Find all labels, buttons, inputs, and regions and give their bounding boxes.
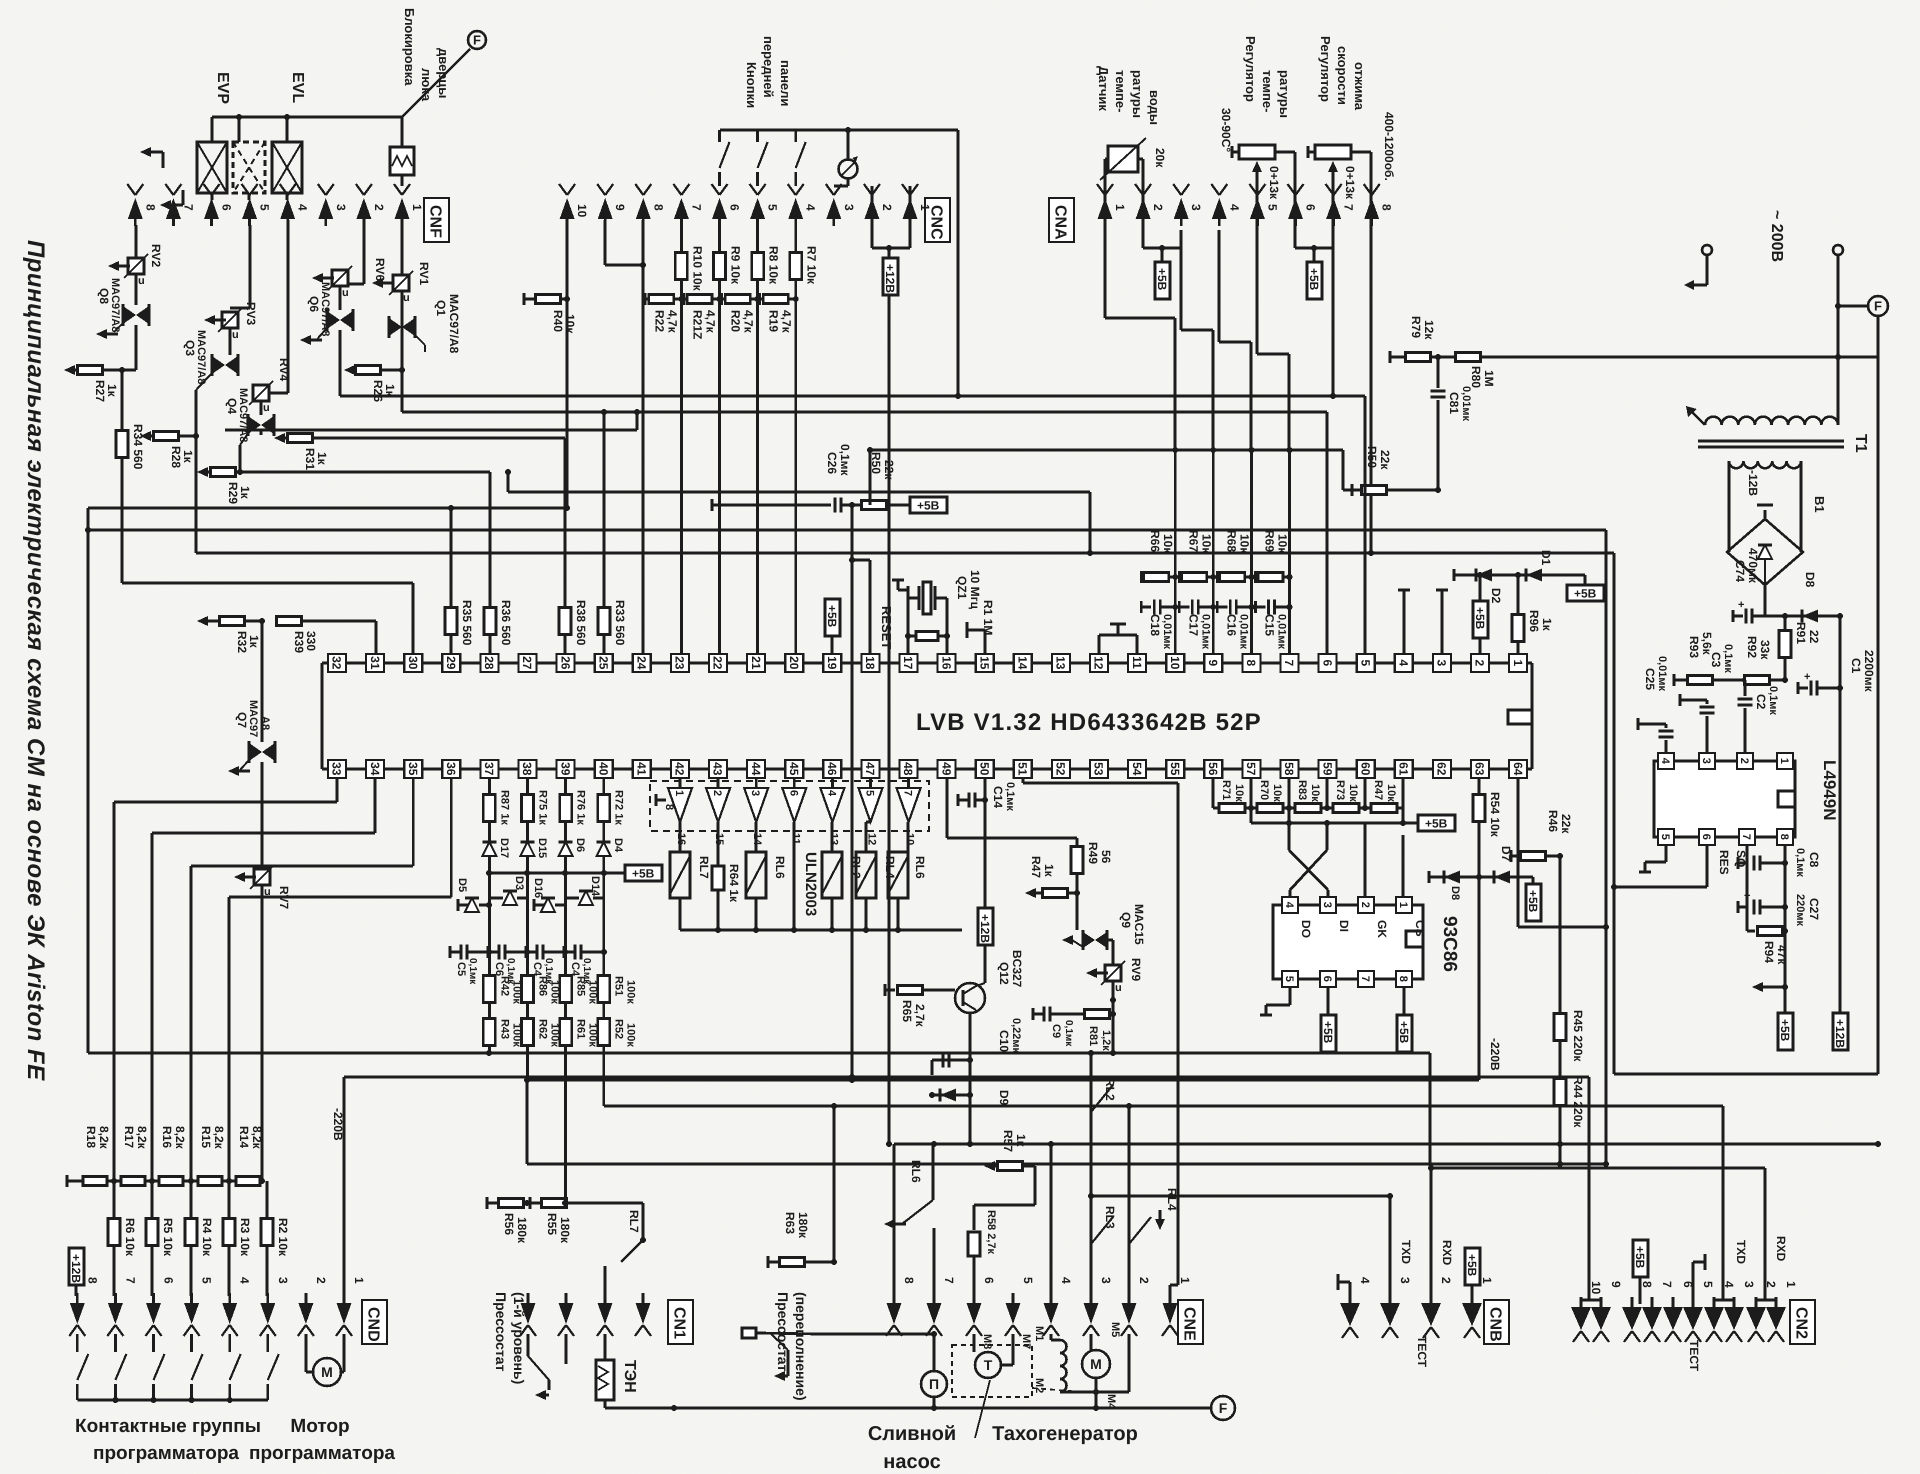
svg-text:0,01мк: 0,01мк: [1161, 614, 1173, 650]
wire RV3-Q3: [229, 328, 232, 355]
svg-text:5: 5: [864, 790, 876, 796]
label R7: [805, 246, 819, 285]
switch RL7: [605, 1203, 646, 1302]
svg-text:R85: R85: [575, 976, 587, 996]
label U3 in 7: [902, 790, 914, 796]
svg-text:10к: 10к: [1237, 534, 1251, 554]
resistor R43: [483, 1019, 495, 1046]
connector CNC pin 5: [750, 184, 780, 226]
connector CNE label: [1178, 1300, 1203, 1344]
resistor R18: [83, 1177, 107, 1186]
wire R79 row: [1390, 351, 1878, 363]
resistor R47: [1371, 804, 1397, 813]
svg-text:R47: R47: [1372, 780, 1384, 800]
svg-text:R73: R73: [1334, 780, 1346, 800]
resistor R96: [1512, 575, 1524, 654]
wire bus y530: [88, 529, 1606, 532]
svg-text:R83: R83: [1296, 780, 1308, 800]
relay coil RL4: [856, 852, 876, 898]
connector CNF label: [424, 198, 449, 242]
wire CNB3 TXD: [1387, 1193, 1393, 1302]
diode D17: [482, 842, 496, 856]
label R65: [900, 1000, 927, 1028]
label Q9: [1119, 904, 1146, 945]
label M5: [1109, 1322, 1121, 1337]
terminal F right: [1835, 296, 1888, 316]
svg-text:Прессостат: Прессостат: [493, 1292, 509, 1372]
capacitor C10: [929, 1053, 970, 1099]
IC U1 pin 43 (bottom row): [709, 760, 727, 778]
pot spin regulator: [1308, 145, 1371, 230]
svg-text:Q4: Q4: [225, 398, 239, 414]
svg-text:D3: D3: [513, 876, 525, 890]
resistor R66: [1141, 571, 1175, 583]
wire pin6 up: [1326, 412, 1329, 654]
svg-text:D16: D16: [532, 878, 544, 898]
svg-text:93C86: 93C86: [1439, 916, 1460, 972]
label Q8: [97, 278, 121, 332]
label D9: [997, 1090, 1011, 1106]
relay coil RL6b: [888, 852, 908, 898]
buffer U3 ch2: [706, 788, 730, 822]
svg-text:R16: R16: [160, 1126, 174, 1148]
svg-text:7: 7: [181, 204, 195, 211]
svg-text:4,7к: 4,7к: [665, 310, 679, 334]
connector CND pin 6: [146, 1277, 176, 1336]
wire reset col down: [849, 557, 855, 1080]
switch RL2: [1091, 1085, 1113, 1112]
IC U1 pin 11 (top row pin 11): [1128, 654, 1146, 672]
heater TEN: [596, 1334, 614, 1408]
svg-text:RESET: RESET: [879, 606, 894, 649]
resistor R50b: [1343, 484, 1438, 496]
wire CNE1 col: [1170, 783, 1178, 1302]
label D4: [612, 838, 624, 853]
connector CNB pin 1: [1462, 1277, 1494, 1338]
wire CNC8 down to pin24: [642, 220, 645, 654]
wire RL4 in: [866, 822, 870, 852]
wire cross DI DO: [1289, 808, 1328, 898]
connector CN2 pin 3: [1724, 1281, 1756, 1342]
svg-text:4: 4: [296, 204, 310, 211]
resistor R19: [760, 293, 799, 305]
svg-text:1к: 1к: [181, 450, 195, 464]
wire CNE7 col: [931, 1228, 937, 1337]
IC U1 pin 20 (top row pin 20): [785, 654, 803, 672]
svg-text:R20: R20: [729, 310, 743, 332]
label door lock: [402, 8, 451, 102]
svg-text:52: 52: [1054, 762, 1068, 776]
label R94: [1762, 941, 1789, 965]
label R36: [499, 600, 513, 646]
IC U2 pin 7: [1739, 829, 1755, 845]
svg-text:М8: М8: [981, 1334, 993, 1349]
label RV6: [373, 258, 387, 281]
svg-text:4,7к: 4,7к: [704, 310, 718, 334]
svg-text:R15: R15: [199, 1126, 213, 1148]
wire pull-up col pin7: [1287, 447, 1293, 654]
svg-text:62: 62: [1435, 762, 1449, 776]
relay coil RL6: [746, 852, 766, 898]
connector CND label: [362, 1300, 387, 1344]
svg-text:D8: D8: [1803, 572, 1817, 588]
label C27: [1794, 894, 1821, 926]
label C1: [1849, 650, 1876, 693]
svg-text:дверцы: дверцы: [436, 48, 451, 98]
svg-text:BC327: BC327: [1010, 950, 1024, 988]
IC U1 pin 35 (bottom row): [404, 760, 422, 778]
svg-text:R57: R57: [1001, 1130, 1015, 1152]
resistor R57: [974, 1161, 1035, 1205]
svg-text:27: 27: [520, 656, 534, 670]
label C18: [1148, 614, 1173, 650]
svg-text:220мк: 220мк: [1794, 894, 1806, 926]
wire CNF2 down: [348, 225, 364, 284]
label R27: [93, 380, 119, 402]
wire CNC10 down: [564, 220, 570, 511]
label C15: [1263, 614, 1288, 650]
switch RL4: [1129, 1210, 1165, 1244]
diode D3b: [489, 891, 527, 905]
power +5B U4 pin8: [1397, 987, 1412, 1052]
svg-text:5: 5: [1358, 660, 1372, 667]
wire R31 to R38 col: [564, 438, 567, 608]
IC U1 pin 3 (top row pin 3): [1433, 654, 1451, 672]
svg-text:R63: R63: [783, 1212, 797, 1234]
connector CNC pin 3: [826, 184, 856, 226]
capacitor C3: [1680, 694, 1715, 753]
svg-text:Q3: Q3: [183, 340, 197, 356]
wire col 191 down: [190, 1181, 193, 1296]
IC U1 pin 21 (top row pin 21): [747, 654, 765, 672]
quartz QZ1: [919, 582, 935, 614]
svg-text:10 Мгц: 10 Мгц: [968, 570, 982, 610]
capacitor C74: [1733, 599, 1765, 624]
svg-text:4,7к: 4,7к: [780, 310, 794, 334]
svg-text:6: 6: [1321, 976, 1333, 982]
wire pin63 down: [1476, 778, 1482, 1080]
IC U1 pin 37 (bottom row): [480, 760, 498, 778]
wire RL6b out: [897, 898, 900, 930]
svg-text:M: M: [321, 1364, 333, 1380]
label RL2s: [1103, 1078, 1117, 1101]
IC U1 pin 17 (top row pin 17): [900, 654, 918, 672]
label -12B: [1746, 470, 1760, 496]
pot temp regulator: [1232, 145, 1295, 230]
svg-text:7: 7: [1282, 660, 1296, 667]
resistor R33: [598, 409, 610, 654]
svg-text:1: 1: [1113, 204, 1127, 211]
IC U1 pin 44 (bottom row): [747, 760, 765, 778]
svg-text:1: 1: [352, 1277, 366, 1284]
svg-text:RXD: RXD: [1440, 1240, 1454, 1266]
IC U1 pin 30 (top row pin 30): [404, 654, 422, 672]
svg-text:C16: C16: [1224, 614, 1238, 636]
label R29: [226, 482, 252, 504]
svg-text:22к: 22к: [1378, 450, 1392, 470]
label R31: [303, 448, 329, 470]
svg-text:R34 560: R34 560: [131, 424, 145, 470]
svg-text:R55: R55: [545, 1213, 559, 1235]
connector CNA pin 7: [1326, 184, 1356, 226]
resistor R61: [560, 1019, 572, 1046]
label D5: [456, 878, 468, 892]
svg-text:R52: R52: [613, 1019, 625, 1039]
connector CNB pin 2: [1421, 1277, 1453, 1338]
svg-text:RES: RES: [1717, 850, 1731, 875]
motor winding: [1051, 1334, 1096, 1392]
svg-text:55: 55: [1168, 762, 1182, 776]
wire CNE6 col R58: [968, 1205, 980, 1302]
wire R34 to pin30: [122, 583, 413, 654]
buffer U3 ch4: [782, 788, 806, 822]
svg-text:C81: C81: [1447, 392, 1461, 414]
power +5B CNA67: [1307, 262, 1322, 299]
label R64: [727, 864, 741, 903]
svg-text:1: 1: [1397, 902, 1409, 908]
label water temp sensor: [1096, 66, 1162, 125]
svg-text:2,7к: 2,7к: [913, 1004, 927, 1028]
wire CS down: [1402, 835, 1405, 898]
svg-text:10к: 10к: [1276, 534, 1290, 554]
svg-text:+12В: +12В: [69, 1254, 83, 1283]
wire CNC bus y130: [720, 130, 961, 399]
svg-text:R10 10к: R10 10к: [690, 246, 704, 292]
svg-text:5: 5: [1701, 1281, 1715, 1288]
thermistor RT: [1100, 138, 1146, 230]
connector CN2 label: [1790, 1300, 1815, 1344]
label R20: [729, 310, 756, 334]
svg-text:59: 59: [1320, 762, 1334, 776]
label M1: [1033, 1326, 1045, 1341]
svg-text:2: 2: [1137, 1277, 1151, 1284]
svg-text:Q7: Q7: [235, 712, 249, 728]
IC U4 pin 3: [1320, 897, 1336, 913]
svg-text:D1: D1: [1539, 550, 1553, 566]
svg-text:C10: C10: [997, 1030, 1011, 1052]
label RV4: [277, 358, 291, 381]
resistor R45: [1554, 1014, 1566, 1080]
label C16: [1224, 614, 1249, 650]
svg-text:8,2к: 8,2к: [212, 1126, 226, 1150]
wire -220B col: [344, 1077, 1589, 1296]
motor programmer M: [306, 1334, 344, 1386]
label R44: [1571, 1076, 1585, 1128]
svg-text:8: 8: [663, 804, 675, 810]
solenoid EVL: [272, 117, 302, 200]
label U3 in 3: [749, 790, 761, 796]
svg-text:6: 6: [1320, 660, 1334, 667]
svg-text:R68: R68: [1224, 530, 1238, 552]
svg-text:R86: R86: [537, 976, 549, 996]
connector CNB pin 4: [1340, 1277, 1372, 1338]
svg-text:4: 4: [1283, 902, 1295, 909]
resistor R10: [675, 253, 687, 280]
svg-text:R19: R19: [767, 310, 781, 332]
resistor R51: [598, 976, 610, 1003]
svg-text:5: 5: [1659, 834, 1671, 840]
connector CND pin 8: [69, 1277, 99, 1336]
label Q7: [235, 700, 271, 737]
resistor R50: [862, 501, 911, 510]
diode D1: [1526, 569, 1542, 582]
label B1: [1812, 496, 1827, 513]
label R16: [160, 1126, 187, 1150]
wire CNF4 down: [269, 220, 288, 393]
IC U1 pin 5 (top row pin 5): [1357, 654, 1375, 672]
varistor RV3: [204, 308, 242, 341]
resistor R32: [197, 616, 265, 626]
svg-text:22: 22: [1807, 630, 1821, 644]
IC U1 pin 50 (bottom row): [976, 760, 994, 778]
label R8: [767, 246, 781, 285]
IC U1 pin 31 (top row pin 31): [366, 654, 384, 672]
wire Q1 to bus 412: [402, 411, 1327, 414]
wire CNA3 drop: [1181, 248, 1213, 450]
connector CNC pin 10: [559, 184, 589, 226]
label pressostat2: [775, 1292, 809, 1401]
svg-text:u: u: [138, 275, 145, 287]
IC U4 pin 6: [1320, 971, 1336, 987]
svg-text:люка: люка: [419, 68, 434, 102]
svg-text:8: 8: [1244, 660, 1258, 667]
label R75: [537, 790, 549, 825]
svg-text:0,01мк: 0,01мк: [1199, 614, 1211, 650]
IC U4 pin 5: [1282, 971, 1298, 987]
buffer U3 ch6: [859, 788, 883, 822]
svg-text:TXD: TXD: [1399, 1240, 1413, 1264]
IC U1 pin 52 (bottom row): [1052, 760, 1070, 778]
svg-text:10к: 10к: [1309, 784, 1321, 802]
svg-text:2: 2: [880, 204, 894, 211]
capacitor C15: [1256, 600, 1290, 615]
wire motor to bus: [1095, 1392, 1098, 1408]
label R35: [460, 600, 474, 646]
resistor R47b: [1025, 874, 1080, 930]
wire U3 in 2: [755, 778, 758, 788]
resistor R3: [223, 1219, 235, 1246]
svg-text:56: 56: [1099, 850, 1113, 864]
IC U4 93C86 body: [1273, 905, 1423, 979]
svg-text:М5: М5: [1109, 1322, 1121, 1337]
connector CNF pin 7: [165, 184, 195, 226]
svg-text:8: 8: [1778, 834, 1790, 840]
relay coil RL7: [670, 852, 690, 898]
label drain pump: [868, 1423, 956, 1473]
label buttons: [744, 36, 793, 108]
IC U1 pin 34 (bottom row): [366, 760, 384, 778]
label R57: [1001, 1130, 1028, 1152]
svg-text:R80: R80: [1469, 366, 1483, 388]
svg-text:0,01мк: 0,01мк: [1460, 386, 1472, 422]
svg-text:8: 8: [651, 204, 665, 211]
wire col 267 down: [266, 1181, 269, 1296]
connector CNF pin 8: [127, 184, 157, 226]
svg-text:ратуры: ратуры: [1277, 70, 1292, 118]
svg-text:C14: C14: [991, 786, 1005, 808]
svg-text:10к: 10к: [1199, 534, 1213, 554]
resistor R29: [197, 467, 243, 477]
IC U1 pin 49 (bottom row): [938, 760, 956, 778]
IC U1 pin 13 (top row pin 13): [1052, 654, 1070, 672]
svg-text:+5В: +5В: [1397, 1021, 1411, 1044]
label C8: [1794, 848, 1821, 877]
transformer T1 core: [1698, 441, 1844, 447]
connector CN2 pin 8: [1622, 1281, 1654, 1342]
label Q4: [225, 388, 249, 442]
svg-text:3: 3: [749, 790, 761, 796]
label M8: [981, 1334, 993, 1349]
label -220B left: [331, 1108, 345, 1141]
connector CNC pin 4: [788, 184, 818, 226]
stub pin4: [1398, 590, 1410, 654]
svg-text:0,01мк: 0,01мк: [1237, 614, 1249, 650]
svg-text:u: u: [232, 329, 239, 341]
svg-text:8: 8: [143, 204, 157, 211]
resistor R8: [752, 253, 764, 280]
wire pull-up col pin9: [1210, 447, 1216, 654]
label TXD CNB: [1399, 1240, 1413, 1264]
IC U4 pin 8: [1396, 971, 1412, 987]
resistor R44: [1554, 1079, 1566, 1168]
label R18: [84, 1126, 111, 1150]
svg-text:0,1мк: 0,1мк: [1794, 848, 1806, 877]
svg-text:RV3: RV3: [244, 302, 258, 325]
svg-text:2: 2: [1738, 758, 1750, 764]
resistor R34: [116, 370, 128, 583]
IC U1 pin 61 (bottom row): [1395, 760, 1413, 778]
svg-text:QZ1: QZ1: [955, 576, 969, 600]
label R19: [767, 310, 794, 334]
ground arrow Q6 gate: [300, 335, 322, 345]
svg-text:CS: CS: [1413, 920, 1427, 937]
connector CNA pin 1: [1097, 184, 1127, 226]
svg-text:2200мк: 2200мк: [1862, 650, 1876, 693]
connector CNC pin 7: [673, 184, 703, 226]
label GK: [1375, 920, 1389, 938]
resistor R56 R55 row: [487, 1197, 643, 1209]
wire col pin37 lower: [488, 873, 491, 1053]
svg-text:60: 60: [1358, 762, 1372, 776]
svg-text:А8: А8: [259, 716, 271, 730]
svg-text:Q12: Q12: [997, 962, 1011, 985]
resistor R85: [560, 976, 572, 1003]
diode D8b: [1802, 610, 1840, 623]
wire CNA1 drop: [1105, 230, 1175, 450]
IC U1 pin 6 (top row pin 6): [1319, 654, 1337, 672]
label R2: [276, 1218, 290, 1257]
LED indicator: [834, 127, 858, 186]
svg-text:R69: R69: [1263, 530, 1277, 552]
wire CND bottom bus: [77, 1397, 267, 1403]
wire Q12 down: [967, 1013, 973, 1144]
label R70: [1258, 780, 1283, 802]
svg-text:R67: R67: [1186, 530, 1200, 552]
label C9: [1050, 1020, 1074, 1047]
wire bus y1196: [1091, 1195, 1390, 1198]
resistor R72: [598, 795, 610, 822]
wire CNA23 join +5B: [1143, 230, 1181, 262]
resistor R22: [645, 293, 684, 305]
wire CNF1 down: [401, 225, 404, 412]
svg-text:C8: C8: [1807, 852, 1821, 868]
svg-text:29: 29: [444, 656, 458, 670]
svg-text:Q9: Q9: [1119, 912, 1133, 928]
IC U1 pin 38 (bottom row): [519, 760, 537, 778]
label ULN2003: [802, 852, 819, 916]
svg-text:1: 1: [918, 204, 932, 211]
connector CNF pin 5: [242, 184, 272, 226]
